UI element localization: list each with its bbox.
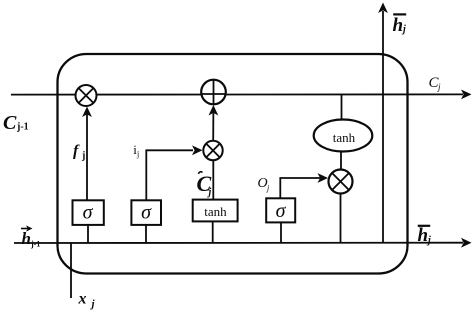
svg-text:j: j: [81, 151, 85, 162]
svg-text:j: j: [437, 82, 441, 92]
svg-text:tanh: tanh: [333, 130, 356, 145]
svg-text:tanh: tanh: [204, 204, 227, 219]
svg-text:j-1: j-1: [16, 122, 29, 133]
svg-text:j-1: j-1: [30, 240, 40, 249]
svg-text:x: x: [78, 291, 87, 308]
svg-text:h: h: [22, 229, 31, 248]
svg-text:σ: σ: [141, 202, 152, 224]
svg-text:σ: σ: [83, 202, 94, 224]
svg-text:C: C: [3, 112, 17, 134]
svg-text:σ: σ: [276, 200, 287, 222]
svg-text:h: h: [393, 15, 404, 36]
svg-text:h: h: [418, 225, 429, 246]
svg-text:j: j: [136, 150, 139, 159]
